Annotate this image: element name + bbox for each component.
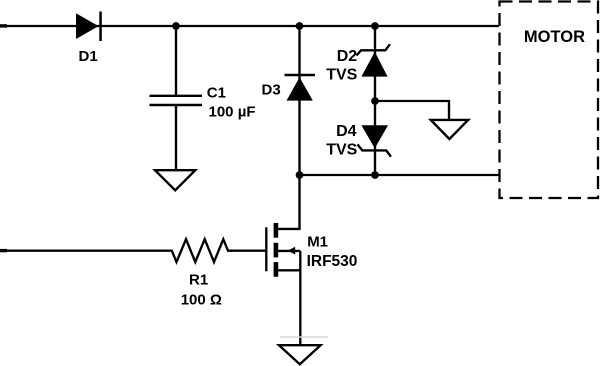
svg-text:M1: M1: [307, 234, 328, 251]
svg-text:TVS: TVS: [326, 142, 357, 159]
svg-text:100 Ω: 100 Ω: [181, 291, 222, 308]
svg-text:D3: D3: [262, 82, 281, 99]
svg-text:D4: D4: [336, 123, 357, 140]
svg-text:R1: R1: [189, 271, 208, 288]
svg-text:TVS: TVS: [326, 67, 357, 84]
svg-text:100 µF: 100 µF: [209, 104, 256, 121]
svg-text:C1: C1: [207, 84, 226, 101]
svg-text:D2: D2: [337, 48, 358, 65]
svg-text:D1: D1: [79, 48, 98, 65]
svg-text:MOTOR: MOTOR: [524, 28, 585, 46]
svg-text:IRF530: IRF530: [307, 253, 358, 270]
